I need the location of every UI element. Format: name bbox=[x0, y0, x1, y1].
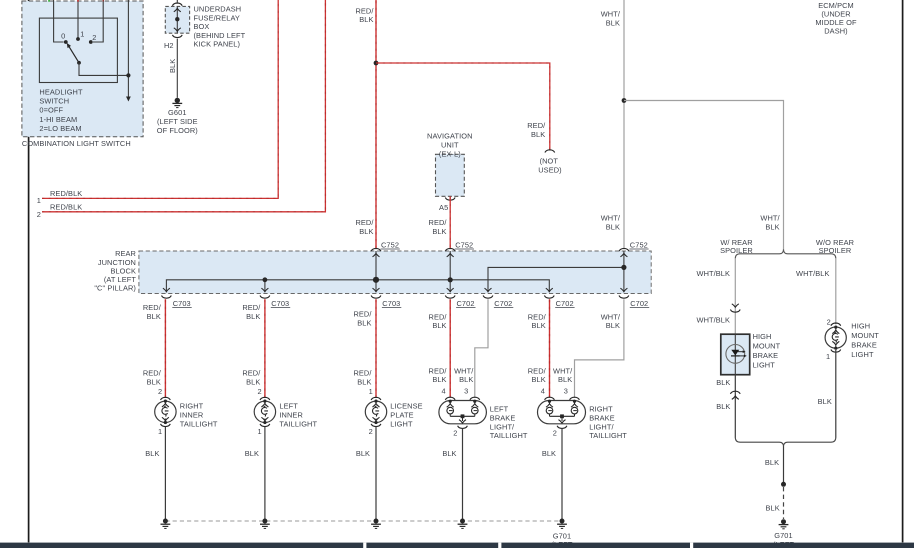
svg-text:BLK: BLK bbox=[532, 375, 546, 384]
svg-text:BLK: BLK bbox=[766, 503, 780, 512]
bus junction nodes bbox=[263, 265, 627, 283]
svg-text:BOX: BOX bbox=[194, 22, 210, 31]
wire split brace bbox=[735, 249, 836, 258]
svg-text:BLK: BLK bbox=[359, 15, 373, 24]
svg-text:RIGHT: RIGHT bbox=[180, 401, 204, 410]
exit connector arcs below junction block bbox=[162, 296, 629, 299]
ground G701 label bbox=[551, 532, 572, 548]
svg-text:C752: C752 bbox=[630, 241, 648, 250]
svg-text:RED/: RED/ bbox=[353, 368, 372, 377]
svg-text:BLK: BLK bbox=[716, 378, 730, 387]
svg-text:BLK: BLK bbox=[147, 312, 161, 321]
wire: BLK ground from right inner taillight bbox=[145, 427, 165, 521]
lamp: right brake light/taillight bbox=[538, 387, 628, 441]
svg-text:3: 3 bbox=[564, 387, 568, 396]
svg-text:LEFT: LEFT bbox=[490, 405, 509, 414]
svg-text:1: 1 bbox=[257, 427, 261, 436]
wire: BLK ground from license plate light bbox=[356, 427, 376, 521]
svg-text:BLK: BLK bbox=[558, 375, 572, 384]
switch terminal 1 bbox=[76, 30, 84, 41]
svg-text:C752: C752 bbox=[455, 241, 473, 250]
ground bus wire (dashed) bbox=[165, 520, 562, 522]
wire: WHT/BLK to LED high mount brake light bbox=[697, 258, 736, 334]
wire: RED/BLK to license plate light bbox=[353, 299, 376, 397]
svg-text:C703: C703 bbox=[382, 299, 400, 308]
svg-text:RED/: RED/ bbox=[429, 218, 448, 227]
svg-text:2: 2 bbox=[827, 318, 831, 327]
svg-text:RED/: RED/ bbox=[355, 218, 374, 227]
svg-text:C702: C702 bbox=[630, 299, 648, 308]
ECM/PCM label bbox=[815, 1, 857, 36]
svg-text:TAILLIGHT: TAILLIGHT bbox=[490, 431, 528, 440]
connector C702 label at x=549.3 bbox=[555, 299, 574, 308]
wire: RED/BLK to right inner taillight bbox=[143, 299, 166, 397]
svg-text:BLK: BLK bbox=[606, 19, 620, 28]
svg-text:1: 1 bbox=[37, 196, 41, 205]
svg-text:2: 2 bbox=[158, 387, 162, 396]
svg-text:LIGHT/: LIGHT/ bbox=[589, 422, 614, 431]
ground node for license plate light bbox=[371, 519, 381, 529]
wire: RED/BLK taillight feed 2 bbox=[42, 0, 325, 212]
wire: WHT/BLK to right brake/taillight pin 3 bbox=[553, 299, 624, 397]
svg-text:0=OFF: 0=OFF bbox=[39, 106, 63, 115]
connector C702 label at x=623.9 bbox=[630, 299, 649, 308]
svg-text:(NOT: (NOT bbox=[540, 156, 559, 165]
svg-text:BLK: BLK bbox=[356, 449, 370, 458]
svg-text:BLK: BLK bbox=[359, 227, 373, 236]
svg-text:TAILLIGHT: TAILLIGHT bbox=[589, 431, 627, 440]
svg-text:BLK: BLK bbox=[818, 397, 832, 406]
svg-text:BRAKE: BRAKE bbox=[851, 341, 877, 350]
svg-text:WHT/BLK: WHT/BLK bbox=[697, 315, 731, 324]
label: W/O REAR SPOILER bbox=[816, 238, 854, 255]
svg-text:RED/: RED/ bbox=[429, 312, 448, 321]
svg-text:RED/: RED/ bbox=[143, 303, 162, 312]
svg-text:NAVIGATION: NAVIGATION bbox=[427, 132, 472, 141]
combination light switch enclosure bbox=[22, 1, 143, 148]
svg-text:HIGH: HIGH bbox=[753, 332, 772, 341]
svg-text:BLK: BLK bbox=[442, 449, 456, 458]
node: brake signal junction bbox=[622, 98, 627, 103]
wire: RED/BLK taillight feed 1 bbox=[42, 0, 278, 198]
ground node for right brake light bbox=[557, 519, 567, 529]
connector C702 label at x=488 bbox=[494, 299, 513, 308]
svg-text:RED/: RED/ bbox=[528, 366, 547, 375]
svg-text:LICENSE: LICENSE bbox=[390, 401, 422, 410]
svg-text:2: 2 bbox=[92, 33, 96, 42]
junction block internal bus 2 bbox=[488, 267, 624, 292]
connector H2 arc below underdash box bbox=[164, 35, 182, 50]
svg-text:1: 1 bbox=[158, 427, 162, 436]
wire: RED/BLK from navigation unit bbox=[429, 196, 451, 248]
connector C703 label at x=264.9 bbox=[271, 299, 290, 308]
LED high mount brake light (w/ rear spoiler) bbox=[721, 332, 781, 375]
svg-text:WHT/: WHT/ bbox=[601, 10, 621, 19]
wire: BLK to G601 bbox=[168, 39, 178, 98]
svg-text:0: 0 bbox=[61, 31, 65, 40]
svg-text:C703: C703 bbox=[271, 299, 289, 308]
node: red feed junction bbox=[374, 61, 379, 66]
svg-text:A5: A5 bbox=[439, 203, 448, 212]
lamp: right inner taillight bbox=[155, 387, 218, 436]
svg-text:UNIT: UNIT bbox=[441, 141, 459, 150]
svg-text:1: 1 bbox=[369, 387, 373, 396]
svg-text:G601: G601 bbox=[168, 108, 186, 117]
connector C702 label at x=450.2 bbox=[456, 299, 475, 308]
svg-text:RED/: RED/ bbox=[429, 366, 448, 375]
connector C703 label at x=166.4 bbox=[172, 299, 191, 308]
svg-text:BLK: BLK bbox=[459, 375, 473, 384]
ground node for right inner taillight bbox=[161, 519, 171, 529]
wire: RED/BLK branch to not-used terminal bbox=[376, 63, 550, 150]
svg-text:FUSE/RELAY: FUSE/RELAY bbox=[194, 13, 240, 22]
wire: dashed BLK to G701 bbox=[766, 487, 784, 519]
wire: RED/BLK main taillight feed bbox=[355, 0, 376, 248]
wire: RED/BLK to left brake/taillight pin 4 bbox=[429, 299, 451, 397]
terminal: not used bbox=[538, 150, 562, 175]
svg-text:RED/: RED/ bbox=[528, 312, 547, 321]
node on BLK ground wire bbox=[781, 482, 786, 487]
lamp: left inner taillight bbox=[254, 387, 317, 436]
svg-text:LIGHT: LIGHT bbox=[390, 420, 413, 429]
svg-text:BLK: BLK bbox=[606, 222, 620, 231]
svg-text:TAILLIGHT: TAILLIGHT bbox=[279, 420, 317, 429]
inline connector below LED unit bbox=[730, 391, 740, 399]
lamp: high mount brake light (w/o rear spoiler) bbox=[825, 318, 879, 362]
svg-text:BLK: BLK bbox=[432, 375, 446, 384]
wire: RED/BLK to right brake/taillight pin 4 bbox=[528, 299, 550, 397]
svg-text:C702: C702 bbox=[556, 299, 574, 308]
wire: feed to switch terminal 2 bbox=[93, 0, 103, 42]
svg-text:4: 4 bbox=[541, 387, 545, 396]
svg-text:WHT/: WHT/ bbox=[760, 213, 780, 222]
svg-text:BLK: BLK bbox=[168, 59, 177, 73]
svg-text:1: 1 bbox=[826, 352, 830, 361]
svg-text:2: 2 bbox=[257, 387, 261, 396]
svg-text:WHT/: WHT/ bbox=[601, 312, 621, 321]
label: W/ REAR SPOILER bbox=[720, 238, 753, 255]
svg-text:WHT/: WHT/ bbox=[553, 366, 573, 375]
svg-text:KICK PANEL): KICK PANEL) bbox=[194, 40, 241, 49]
wire: BLK common to G701 bbox=[765, 446, 784, 482]
svg-text:RIGHT: RIGHT bbox=[589, 405, 613, 414]
underdash fuse/relay box bbox=[165, 5, 245, 49]
svg-text:(BEHIND LEFT: (BEHIND LEFT bbox=[194, 31, 246, 40]
ground G701 (spoiler circuit) bbox=[773, 519, 794, 548]
svg-text:C702: C702 bbox=[494, 299, 512, 308]
junction block internal bus 1 bbox=[166, 280, 549, 292]
ground node for left inner taillight bbox=[260, 519, 270, 529]
svg-text:2: 2 bbox=[453, 428, 457, 437]
switch terminal 2 bbox=[89, 33, 97, 44]
connector C703 label at x=376 bbox=[382, 299, 401, 308]
wire: feed to switch terminal 0 bbox=[49, 0, 64, 42]
svg-text:HIGH: HIGH bbox=[851, 321, 870, 330]
svg-text:RED/BLK: RED/BLK bbox=[50, 203, 82, 212]
svg-text:COMBINATION LIGHT SWITCH: COMBINATION LIGHT SWITCH bbox=[22, 139, 131, 148]
svg-text:BLK: BLK bbox=[246, 312, 260, 321]
svg-text:LIGHT: LIGHT bbox=[753, 361, 776, 370]
svg-text:PLATE: PLATE bbox=[390, 411, 413, 420]
svg-text:BLK: BLK bbox=[246, 377, 260, 386]
svg-text:UNDERDASH: UNDERDASH bbox=[194, 5, 242, 14]
wire: BLK below LED unit bbox=[716, 375, 735, 438]
wire: feed to switch terminal 1 bbox=[77, 0, 79, 39]
svg-text:(EX-L): (EX-L) bbox=[439, 150, 461, 159]
svg-text:BLK: BLK bbox=[716, 402, 730, 411]
connector A5 arc bbox=[439, 198, 455, 212]
wire: WHT/BLK to left brake/taillight pin 3 bbox=[454, 299, 488, 397]
svg-text:2: 2 bbox=[553, 428, 557, 437]
svg-text:BLK: BLK bbox=[542, 449, 556, 458]
svg-text:BLK: BLK bbox=[357, 377, 371, 386]
wire: switch common to output node bbox=[79, 63, 128, 76]
svg-text:(LEFT SIDE: (LEFT SIDE bbox=[157, 117, 198, 126]
svg-text:BRAKE: BRAKE bbox=[490, 413, 516, 422]
svg-text:BLK: BLK bbox=[765, 458, 779, 467]
wire: vertical feed through switch output bbox=[127, 0, 129, 97]
wire inside underdash box bbox=[174, 6, 181, 33]
inline connector on left spoiler branch bbox=[730, 304, 740, 312]
svg-text:"C" PILLAR): "C" PILLAR) bbox=[94, 284, 136, 293]
connector arc above underdash box bbox=[172, 0, 182, 6]
svg-text:1: 1 bbox=[80, 30, 84, 39]
svg-text:INNER: INNER bbox=[180, 411, 204, 420]
svg-text:BLK: BLK bbox=[531, 130, 545, 139]
svg-text:3: 3 bbox=[464, 387, 468, 396]
svg-text:C702: C702 bbox=[457, 299, 475, 308]
switch terminal 0 bbox=[61, 31, 68, 43]
exit arrows (bottom) bbox=[163, 288, 628, 291]
svg-text:SWITCH: SWITCH bbox=[39, 97, 69, 106]
wire: WHT/BLK brake signal from ECM bbox=[601, 0, 624, 248]
svg-text:RED/: RED/ bbox=[353, 309, 372, 318]
svg-text:C703: C703 bbox=[173, 299, 191, 308]
headlight switch SW box bbox=[39, 18, 117, 133]
node: switch output junction bbox=[126, 73, 130, 77]
svg-text:LIGHT/: LIGHT/ bbox=[490, 422, 515, 431]
svg-text:USED): USED) bbox=[538, 166, 562, 175]
svg-text:BRAKE: BRAKE bbox=[589, 413, 615, 422]
svg-text:G701: G701 bbox=[774, 531, 792, 540]
svg-text:BLK: BLK bbox=[147, 377, 161, 386]
svg-text:BRAKE: BRAKE bbox=[753, 351, 779, 360]
svg-text:C752: C752 bbox=[381, 241, 399, 250]
svg-text:1-HI BEAM: 1-HI BEAM bbox=[39, 115, 77, 124]
wire: BLK ground from left brake light bbox=[442, 429, 462, 521]
wire merge brace bbox=[735, 437, 836, 446]
svg-text:2: 2 bbox=[369, 427, 373, 436]
ground node for left brake light bbox=[458, 519, 468, 529]
svg-text:OF FLOOR): OF FLOOR) bbox=[157, 126, 198, 135]
svg-text:WHT/BLK: WHT/BLK bbox=[796, 269, 830, 278]
svg-text:MOUNT: MOUNT bbox=[851, 331, 879, 340]
wire: BLK ground from right brake light bbox=[542, 429, 562, 521]
svg-text:BLK: BLK bbox=[145, 449, 159, 458]
svg-text:RED/: RED/ bbox=[242, 368, 261, 377]
arrow: output continues down bbox=[126, 97, 131, 102]
svg-text:BLK: BLK bbox=[606, 321, 620, 330]
svg-text:RED/: RED/ bbox=[527, 121, 546, 130]
rear junction block bbox=[94, 249, 651, 293]
wire: RED/BLK to left inner taillight bbox=[242, 299, 265, 397]
svg-text:BLK: BLK bbox=[245, 449, 259, 458]
svg-text:LEFT: LEFT bbox=[279, 401, 298, 410]
svg-text:WHT/: WHT/ bbox=[601, 213, 621, 222]
svg-text:MOUNT: MOUNT bbox=[753, 341, 781, 350]
wire: WHT/BLK to bulb high mount brake light bbox=[796, 258, 836, 324]
lamp: left brake light/taillight bbox=[439, 387, 528, 441]
wire: WHT/BLK branch to high mount brake light bbox=[624, 101, 784, 250]
svg-text:BLK: BLK bbox=[532, 321, 546, 330]
svg-text:4: 4 bbox=[441, 387, 445, 396]
wire: BLK ground from left inner taillight bbox=[245, 427, 265, 521]
svg-text:2: 2 bbox=[37, 210, 41, 219]
navigation unit (EX-L) bbox=[427, 132, 472, 197]
connector C752 arc + label (nav feed) bbox=[445, 241, 474, 251]
svg-text:LIGHT: LIGHT bbox=[851, 350, 874, 359]
svg-text:WHT/BLK: WHT/BLK bbox=[697, 269, 731, 278]
svg-text:H2: H2 bbox=[164, 41, 174, 50]
internal pass-through wires bbox=[376, 251, 624, 292]
svg-text:DASH): DASH) bbox=[824, 27, 848, 36]
svg-text:BLK: BLK bbox=[432, 321, 446, 330]
connector C752 arc + label (red feed) bbox=[371, 241, 400, 251]
wire: BLK below bulb bbox=[818, 350, 836, 438]
ground G601 bbox=[157, 98, 198, 135]
svg-text:BLK: BLK bbox=[357, 318, 371, 327]
svg-text:HEADLIGHT: HEADLIGHT bbox=[39, 87, 83, 96]
svg-text:INNER: INNER bbox=[279, 411, 303, 420]
svg-text:WHT/: WHT/ bbox=[454, 366, 474, 375]
svg-text:RED/: RED/ bbox=[143, 368, 162, 377]
connector C752 arc + label (wht/blk) bbox=[619, 241, 649, 251]
svg-text:BLK: BLK bbox=[432, 227, 446, 236]
svg-text:TAILLIGHT: TAILLIGHT bbox=[180, 420, 218, 429]
svg-text:RED/BLK: RED/BLK bbox=[50, 189, 82, 198]
svg-text:RED/: RED/ bbox=[242, 303, 261, 312]
svg-text:BLK: BLK bbox=[765, 222, 779, 231]
switch wiper arm with arrow bbox=[67, 43, 81, 65]
entry arrows (top) bbox=[373, 253, 628, 256]
lamp: license plate light bbox=[365, 387, 422, 436]
svg-text:2=LO BEAM: 2=LO BEAM bbox=[39, 124, 81, 133]
